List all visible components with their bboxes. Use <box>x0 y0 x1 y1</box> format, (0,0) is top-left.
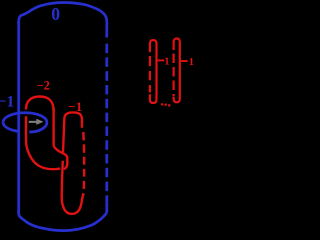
right figure: chain of -1 circles <box>150 39 188 104</box>
wire: capsule right side solid top stub <box>105 22 108 38</box>
wire: A clasp bulge over curve B <box>54 146 68 169</box>
wire: A right leg down from arch <box>52 108 54 146</box>
svg-text:−1: −1 <box>68 99 82 114</box>
svg-text:0: 0 <box>51 4 60 24</box>
wire: left hairpin dashed back side <box>149 56 151 66</box>
wire: framing tick of left hairpin <box>158 59 165 61</box>
wire: capsule left side <box>17 22 20 214</box>
svg-text:−1: −1 <box>0 93 14 110</box>
wire: B right side dashed (hidden) segments <box>82 132 85 141</box>
red -2 framed curve A <box>26 97 67 170</box>
wire: B lower left leg and bottom U <box>62 161 84 214</box>
wire: B left leg + arch + right leg solid top <box>63 112 82 152</box>
-1 framed blowdown circle: blue ellipse <box>3 113 47 132</box>
wire: capsule right side solid bottom stub <box>105 203 108 212</box>
svg-text:−2: −2 <box>37 79 50 93</box>
wire: capsule bottom arch <box>19 211 107 231</box>
wire: ellipse bottom-left, under red strand (gap) <box>3 122 19 131</box>
wire: A left leg below ellipse, bends right into horizontal <box>26 116 60 169</box>
wire: capsule top arch <box>19 2 107 24</box>
0-framed 2-handle attaching circle: blue rounded cylinder outline <box>19 2 107 230</box>
wire: left hairpin top cap + right side + bottom cap <box>150 40 157 103</box>
wire: right hairpin top cap + right side + bottom cap <box>174 39 180 103</box>
red -1 framed curve B <box>62 112 84 213</box>
wire: capsule right side dashed (hidden) <box>105 44 108 203</box>
wire: gray twist arrow <box>29 119 44 125</box>
node: ellipsis dots <box>161 103 171 106</box>
svg-text:1: 1 <box>189 57 194 68</box>
wire: ellipse top half + right, over red strand <box>3 113 47 132</box>
wire: right hairpin dashed back side <box>173 54 175 64</box>
svg-text:1: 1 <box>164 56 169 67</box>
wire: framing tick of right hairpin <box>181 60 188 62</box>
wire: A arch top <box>26 97 54 111</box>
